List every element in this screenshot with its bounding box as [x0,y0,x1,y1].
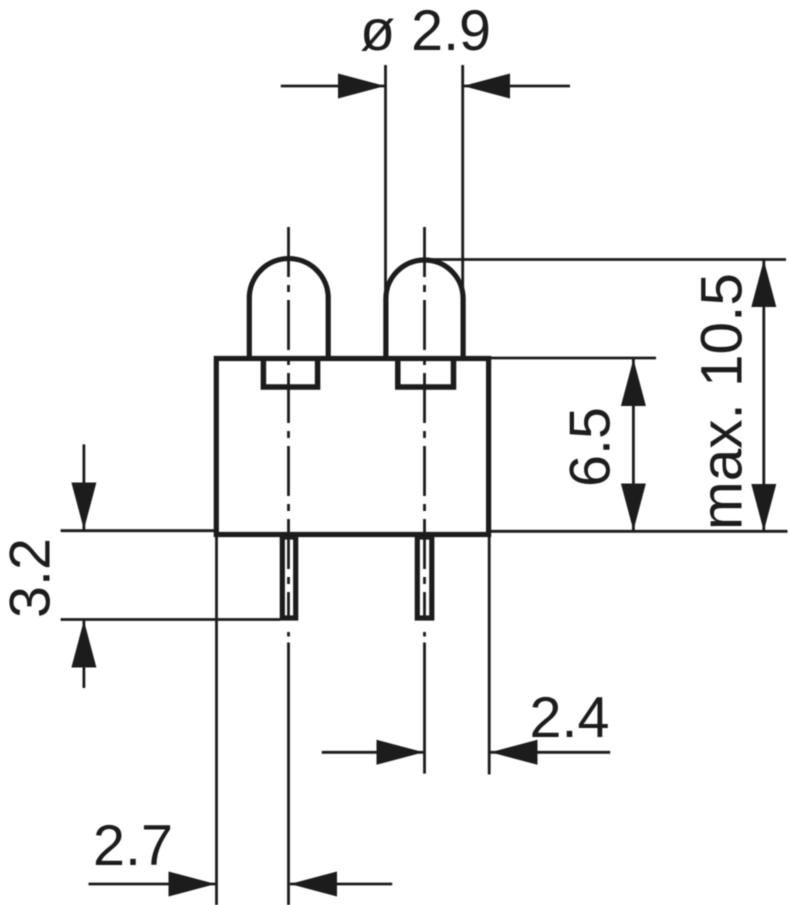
svg-text:2.7: 2.7 [93,814,173,878]
svg-text:max. 10.5: max. 10.5 [690,273,755,530]
svg-text:ø 2.9: ø 2.9 [360,0,491,63]
svg-text:2.4: 2.4 [530,686,610,750]
svg-text:3.2: 3.2 [0,538,63,618]
svg-text:6.5: 6.5 [559,407,623,487]
